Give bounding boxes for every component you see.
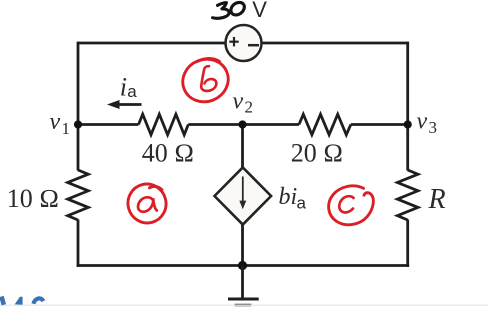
wire left rail lower xyxy=(77,220,80,267)
wire top-right segment xyxy=(262,42,408,45)
wire v2 to 20ohm xyxy=(243,123,300,126)
label 30 handwritten xyxy=(213,2,245,18)
wire current source to bottom junction xyxy=(241,224,244,266)
dependent current source bia diamond xyxy=(215,167,272,224)
wire v1 to 40ohm xyxy=(78,123,139,126)
current arrow ia xyxy=(116,103,142,106)
svg-text:20 Ω: 20 Ω xyxy=(291,139,343,168)
svg-text:a: a xyxy=(297,193,307,212)
svg-text:10 Ω: 10 Ω xyxy=(7,184,59,213)
current source arrow xyxy=(242,177,244,203)
annotation circled a red xyxy=(124,180,171,228)
node v1 dot xyxy=(74,120,82,128)
resistor 10ohm xyxy=(68,170,89,220)
svg-text:40 Ω: 40 Ω xyxy=(142,139,194,168)
resistor R xyxy=(397,170,418,220)
resistor 20ohm xyxy=(299,114,351,135)
svg-text:1: 1 xyxy=(62,119,71,138)
svg-text:a: a xyxy=(127,82,137,101)
annotation circled b red xyxy=(176,52,234,108)
svg-text:i: i xyxy=(120,72,127,101)
svg-text:bi: bi xyxy=(279,184,298,210)
wire right rail lower xyxy=(406,220,409,267)
minus polarity mark xyxy=(248,44,259,47)
svg-text:2: 2 xyxy=(245,98,254,117)
svg-text:v: v xyxy=(233,88,244,114)
wire right rail upper xyxy=(406,42,409,171)
resistor 40ohm xyxy=(139,114,189,135)
caption fragment blue 4.4.2 xyxy=(0,297,488,306)
wire bottom segment xyxy=(77,264,410,267)
ground xyxy=(228,266,259,306)
wire 40ohm to v2 xyxy=(188,123,242,126)
plus polarity mark xyxy=(229,37,238,46)
wire top-left segment xyxy=(78,42,225,45)
bottom junction dot xyxy=(238,261,247,270)
voltage source V1 30V circle xyxy=(226,25,262,61)
svg-text:3: 3 xyxy=(429,118,438,137)
wire left rail upper xyxy=(77,42,80,171)
node v3 dot xyxy=(404,120,412,128)
wire 20ohm to v3 xyxy=(351,123,408,126)
svg-text:v: v xyxy=(417,109,428,135)
svg-text:v: v xyxy=(50,109,61,135)
svg-text:R: R xyxy=(428,184,446,215)
svg-text:V: V xyxy=(252,0,267,22)
annotation circled c red xyxy=(329,186,374,225)
node v2 dot xyxy=(238,120,246,128)
wire v2 down to current source xyxy=(241,125,244,170)
